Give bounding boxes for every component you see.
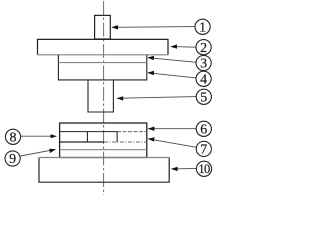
balloon 5	[196, 89, 211, 105]
punch (part 5)	[88, 80, 113, 112]
die opening right wall	[116, 132, 118, 142]
leader 9	[18, 149, 56, 157]
bottom plate / die holder (part 10)	[39, 158, 169, 183]
svg-text:6: 6	[200, 122, 207, 137]
leader 5	[117, 96, 197, 100]
centerline	[103, 1, 105, 195]
balloon 9	[5, 151, 20, 167]
top plate / punch holder (part 2)	[38, 39, 169, 54]
svg-text:5: 5	[200, 90, 207, 105]
balloon 1	[195, 19, 210, 35]
shank (part 1)	[95, 15, 111, 39]
backing plate / punch plate separation line	[58, 62, 146, 64]
leader 4	[147, 71, 196, 78]
svg-text:3: 3	[200, 57, 207, 72]
balloon 7	[196, 141, 211, 157]
leader 6	[148, 127, 197, 131]
stripper plate lower edge	[60, 131, 147, 133]
leader 7	[148, 137, 197, 147]
svg-text:7: 7	[200, 143, 207, 158]
die opening left wall	[86, 132, 88, 142]
die plate upper edge	[60, 141, 147, 143]
backing plate (part 3) and punch plate (part 4) outline	[58, 55, 146, 80]
leader 8	[20, 134, 57, 138]
svg-text:9: 9	[9, 152, 16, 167]
svg-text:4: 4	[200, 72, 207, 87]
balloon 3	[196, 55, 211, 71]
balloon 10	[196, 161, 211, 176]
leader 10	[171, 167, 197, 171]
leader 3	[147, 56, 196, 63]
balloon 4	[196, 71, 211, 87]
svg-text:1: 1	[199, 20, 206, 35]
svg-text:2: 2	[200, 41, 207, 56]
die plate lower edge	[60, 149, 147, 151]
balloon 2	[196, 40, 211, 56]
svg-text:10: 10	[198, 162, 210, 176]
leader 2	[170, 44, 196, 48]
leader 1	[111, 25, 195, 29]
die block assembly outline (parts 6-9)	[60, 123, 147, 158]
svg-text:8: 8	[10, 130, 17, 145]
balloon 6	[196, 121, 211, 137]
balloon 8	[5, 129, 20, 145]
